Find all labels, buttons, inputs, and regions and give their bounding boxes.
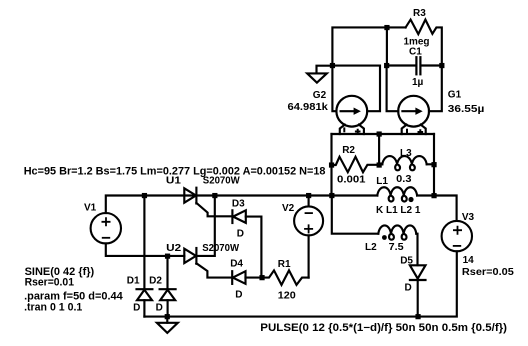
- svg-text:7.5: 7.5: [389, 242, 404, 253]
- svg-text:Rser=0.05: Rser=0.05: [462, 267, 514, 278]
- svg-text:0.3: 0.3: [396, 174, 412, 185]
- svg-text:V3: V3: [462, 212, 475, 223]
- svg-text:D: D: [237, 229, 244, 240]
- svg-text:14: 14: [463, 255, 475, 266]
- svg-text:L1: L1: [376, 176, 388, 187]
- svg-text:V1: V1: [84, 202, 97, 213]
- svg-text:R1: R1: [278, 259, 291, 270]
- svg-text:D: D: [235, 290, 242, 301]
- svg-text:R2: R2: [342, 145, 355, 156]
- svg-text:.tran 0 1 0.1: .tran 0 1 0.1: [24, 302, 82, 314]
- svg-text:D5: D5: [400, 256, 413, 267]
- svg-text:120: 120: [278, 291, 296, 302]
- svg-text:U2: U2: [166, 243, 181, 254]
- svg-text:D: D: [133, 303, 140, 314]
- svg-text:G2: G2: [313, 90, 327, 101]
- svg-text:D3: D3: [232, 199, 245, 210]
- svg-text:PULSE(0 12 {0.5*(1−d)/f} 50n 5: PULSE(0 12 {0.5*(1−d)/f} 50n 50n 0.5m {0…: [260, 322, 507, 334]
- svg-text:V2: V2: [282, 203, 295, 214]
- svg-text:0.001: 0.001: [337, 175, 366, 186]
- svg-text:R3: R3: [413, 8, 426, 19]
- svg-text:D4: D4: [230, 259, 243, 270]
- svg-text:D2: D2: [149, 275, 162, 286]
- svg-text:S2070W: S2070W: [202, 243, 239, 254]
- svg-text:Hc=95 Br=1.2 Bs=1.75 Lm=0.277: Hc=95 Br=1.2 Bs=1.75 Lm=0.277 Lg=0.002 A…: [24, 165, 326, 177]
- svg-text:D: D: [156, 303, 163, 314]
- svg-text:.param f=50 d=0.44: .param f=50 d=0.44: [24, 290, 123, 302]
- svg-text:L2: L2: [365, 242, 377, 253]
- svg-text:C1: C1: [409, 47, 422, 58]
- svg-text:G1: G1: [448, 90, 462, 101]
- svg-text:D: D: [405, 283, 412, 294]
- svg-text:64.981k: 64.981k: [288, 102, 329, 113]
- svg-text:D1: D1: [127, 275, 140, 286]
- svg-text:1µ: 1µ: [412, 77, 424, 88]
- svg-text:K L1 L2 1: K L1 L2 1: [376, 205, 421, 216]
- svg-text:L3: L3: [400, 148, 412, 159]
- svg-text:Rser=0.01: Rser=0.01: [25, 277, 74, 289]
- svg-text:36.55µ: 36.55µ: [448, 104, 485, 115]
